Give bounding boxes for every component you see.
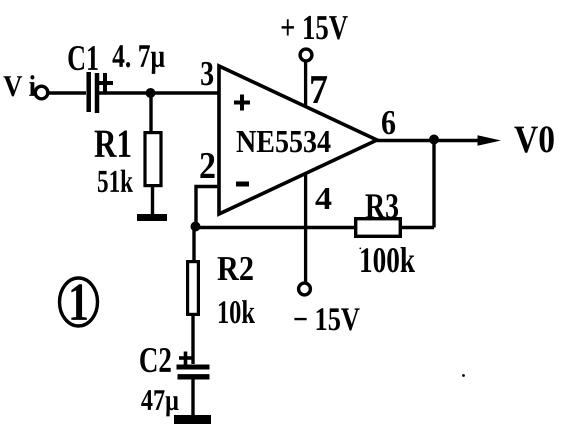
svg-text:V i: V i: [3, 70, 36, 103]
svg-text:100k: 100k: [359, 240, 415, 280]
svg-text:1: 1: [68, 272, 89, 332]
svg-text:NE5534: NE5534: [236, 123, 331, 159]
svg-text:2: 2: [199, 145, 216, 187]
svg-text:V0: V0: [514, 118, 555, 161]
svg-text:C1: C1: [67, 38, 99, 78]
svg-text:R1: R1: [94, 121, 132, 166]
svg-text:+ 15V: + 15V: [280, 8, 348, 47]
svg-text:C2: C2: [139, 340, 172, 380]
svg-text:10k: 10k: [217, 295, 255, 331]
svg-text:4. 7μ: 4. 7μ: [112, 39, 165, 75]
svg-text:R3: R3: [365, 186, 399, 226]
svg-text:R2: R2: [217, 249, 254, 288]
svg-text:6: 6: [381, 103, 396, 142]
svg-text:− 15V: − 15V: [293, 302, 360, 338]
svg-text:51k: 51k: [97, 163, 133, 199]
svg-text:7: 7: [309, 66, 328, 112]
svg-text:4: 4: [315, 180, 332, 216]
svg-text:47μ: 47μ: [141, 384, 179, 417]
svg-text:3: 3: [200, 54, 214, 93]
